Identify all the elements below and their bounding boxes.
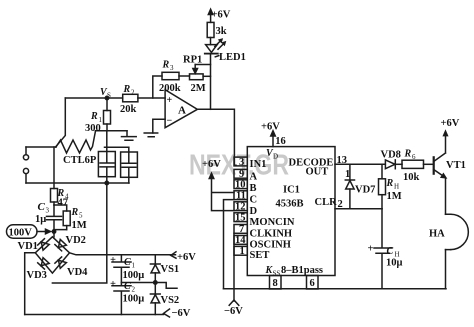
svg-text:+6V: +6V [212, 10, 231, 21]
capacitor CH [374, 209, 392, 289]
svg-text:C: C [387, 246, 394, 257]
wire +6V pin bus [212, 178, 235, 211]
zener VD7 [349, 164, 351, 180]
svg-text:R: R [123, 84, 131, 95]
wire output [197, 109, 236, 165]
wire RP1 right to LED column [203, 75, 210, 77]
svg-text:16: 16 [275, 136, 286, 147]
svg-text:VD4: VD4 [67, 267, 88, 278]
terminal J1 [25, 147, 27, 155]
wire mid junction to VS column [121, 282, 155, 284]
svg-text:IC1: IC1 [283, 185, 300, 196]
mic element M2 capacitor [122, 147, 136, 183]
svg-text:+6V: +6V [441, 118, 460, 129]
resistor R6 [402, 160, 424, 168]
wire R3 to RP1 [179, 75, 190, 77]
svg-text:1: 1 [132, 262, 136, 270]
svg-text:+: + [110, 255, 116, 266]
capacitor C2 [112, 286, 131, 315]
svg-text:100μ: 100μ [123, 294, 145, 305]
svg-text:HA: HA [429, 229, 445, 240]
pin 16 [272, 135, 274, 147]
sensor CTL6P zigzag [56, 131, 96, 153]
svg-text:C: C [124, 281, 131, 292]
wire mic return down [52, 183, 106, 283]
wire -6V pin bus [233, 233, 235, 301]
svg-text:VS1: VS1 [161, 264, 180, 275]
bridge outline [35, 237, 69, 273]
svg-text:VT1: VT1 [446, 160, 466, 171]
svg-text:8–B1pass: 8–B1pass [281, 265, 323, 276]
svg-text:VD2: VD2 [66, 235, 86, 246]
svg-text:10μ: 10μ [386, 258, 403, 269]
arrow -6V under IC [229, 300, 239, 305]
wire Vs left branch down to CTL6P node [56, 98, 66, 147]
pin 7 box [234, 225, 247, 234]
svg-text:1: 1 [345, 169, 350, 180]
svg-text:VS2: VS2 [161, 295, 180, 306]
svg-text:6: 6 [412, 153, 416, 161]
junction [105, 181, 108, 184]
capacitor C3 [47, 205, 62, 230]
node C3/R5 top [54, 205, 67, 211]
LED LED1 [210, 38, 212, 45]
svg-text:+6V: +6V [177, 252, 196, 263]
pin 10 box [234, 180, 247, 189]
svg-text:A: A [178, 105, 186, 117]
svg-text:D: D [250, 206, 258, 217]
svg-text:8: 8 [273, 278, 278, 289]
svg-text:10: 10 [235, 180, 246, 191]
ground B [144, 133, 158, 137]
svg-text:1M: 1M [387, 191, 402, 202]
svg-text:CTL6P: CTL6P [63, 155, 97, 166]
wire bottom rail [224, 288, 447, 290]
svg-text:+: + [368, 244, 374, 255]
svg-text:C: C [124, 257, 131, 268]
svg-text:1M: 1M [72, 220, 87, 231]
ground A [122, 131, 137, 140]
svg-text:−6V: −6V [172, 308, 191, 319]
mic element M2 box [121, 152, 138, 177]
svg-text:CLR: CLR [315, 197, 338, 208]
svg-text:13: 13 [337, 155, 348, 166]
wire +6V rail [70, 253, 176, 255]
svg-text:200k: 200k [159, 83, 181, 94]
wire Vs top row [65, 97, 165, 99]
svg-text:C: C [250, 195, 258, 206]
wire + input [153, 76, 162, 98]
diode VD3 [38, 257, 50, 269]
svg-text:B: B [250, 183, 257, 194]
svg-text:VD1: VD1 [18, 241, 38, 252]
pin 6 box [307, 276, 319, 290]
junction Vs [105, 96, 108, 99]
diode VD4 [55, 257, 67, 269]
svg-text:10k: 10k [403, 172, 420, 183]
svg-text:1μ: 1μ [35, 214, 46, 225]
resistor R5 [63, 211, 70, 226]
svg-text:−: − [167, 116, 173, 127]
mic element M1 capacitor [100, 147, 114, 183]
svg-text:D: D [273, 153, 278, 161]
pin 3 box [234, 157, 247, 166]
svg-text:47: 47 [58, 198, 69, 209]
svg-text:LED1: LED1 [219, 52, 246, 63]
svg-text:+: + [110, 279, 116, 290]
svg-text:1: 1 [240, 246, 245, 257]
svg-text:9: 9 [239, 169, 244, 180]
svg-text:R: R [90, 111, 98, 122]
svg-text:+6V: +6V [202, 159, 221, 170]
svg-text:2: 2 [338, 199, 343, 210]
wire -6V bottom rail [25, 314, 164, 316]
svg-text:CLKINH: CLKINH [250, 228, 293, 239]
wire down to mic tops [106, 131, 108, 148]
resistor 3k [207, 22, 214, 37]
wire - input [153, 119, 165, 133]
potentiometer RP1 [190, 74, 204, 80]
svg-text:12: 12 [235, 202, 246, 213]
svg-text:R: R [71, 207, 79, 218]
arrow -6V left [164, 309, 170, 317]
diode VD1 [38, 239, 50, 251]
svg-text:C: C [38, 201, 46, 213]
svg-text:SS: SS [273, 270, 281, 278]
pin 11 box [234, 191, 247, 200]
svg-text:2: 2 [132, 286, 136, 294]
arrow +6V left rail [171, 252, 176, 258]
IC U1 4536B body [247, 147, 335, 276]
op-amp A [165, 90, 197, 128]
svg-text:+: + [167, 95, 173, 106]
wire LED column [210, 55, 212, 110]
pin 8 box [270, 276, 282, 290]
terminal J2 [23, 168, 28, 173]
svg-text:H: H [394, 183, 399, 191]
pin 12 box [234, 202, 247, 211]
svg-text:A: A [250, 172, 258, 183]
svg-text:VD3: VD3 [27, 270, 47, 281]
svg-text:VD8: VD8 [381, 150, 401, 161]
diode VD2 [55, 239, 67, 251]
wire 100V arrow [37, 231, 46, 233]
pin 15 box [234, 213, 247, 222]
svg-text:SET: SET [250, 250, 270, 261]
speaker HA [446, 214, 451, 249]
wire bridge minus to bottom rail [25, 253, 36, 315]
diode VD8 [385, 160, 395, 169]
resistor R1 [106, 98, 108, 111]
pin 14 box [234, 236, 247, 245]
svg-text:3: 3 [239, 157, 244, 168]
svg-text:R: R [386, 178, 394, 189]
svg-text:7: 7 [239, 224, 244, 235]
wire pin11 bus to -6V [224, 200, 235, 289]
zener VS1 [154, 255, 156, 264]
capacitor C1 [112, 255, 131, 286]
wire R1 bottom node row [96, 130, 128, 132]
svg-text:100V: 100V [9, 228, 33, 239]
node C3/R5 bottom [54, 230, 67, 237]
svg-text:300: 300 [85, 123, 101, 134]
svg-text:2M: 2M [191, 83, 206, 94]
svg-text:OUT: OUT [306, 167, 329, 178]
svg-text:14: 14 [235, 235, 246, 246]
svg-text:4536B: 4536B [276, 199, 304, 210]
svg-text:3k: 3k [216, 26, 227, 37]
svg-text:100μ: 100μ [123, 270, 145, 281]
svg-text:2: 2 [131, 89, 135, 97]
svg-text:+6V: +6V [261, 122, 280, 133]
svg-text:IN1: IN1 [250, 159, 267, 170]
svg-text:6: 6 [310, 278, 315, 289]
wire pin13 [335, 163, 385, 165]
zener VS2 [154, 283, 156, 295]
svg-text:5: 5 [79, 212, 83, 220]
svg-text:R: R [404, 149, 412, 160]
source 100V oval [7, 225, 38, 238]
mic element M1 box [98, 152, 115, 177]
svg-text:OSCINH: OSCINH [250, 240, 291, 251]
svg-text:11: 11 [236, 191, 246, 202]
svg-text:−6V: −6V [224, 306, 243, 317]
transistor VT1 [433, 157, 435, 173]
wire terminal top line [26, 146, 56, 148]
wire pin2 CLR [335, 208, 382, 210]
svg-text:RP1: RP1 [183, 55, 202, 66]
svg-text:R: R [162, 60, 170, 71]
resistor R3 [162, 72, 179, 79]
pin 9 box [234, 169, 247, 178]
svg-text:MONCIN: MONCIN [250, 217, 295, 228]
svg-text:VD7: VD7 [355, 185, 375, 196]
power +6V top [210, 13, 212, 22]
wire mic top line [105, 146, 129, 148]
resistor R4 [53, 147, 55, 189]
wire bottom rail of sensor block [26, 182, 129, 184]
svg-text:15: 15 [235, 213, 246, 224]
svg-text:20k: 20k [120, 104, 137, 115]
svg-text:3: 3 [170, 64, 174, 72]
ground mid tap [155, 283, 177, 289]
pin 1 box [234, 246, 247, 255]
resistor R2 [123, 94, 138, 102]
resistor RH [381, 164, 383, 179]
